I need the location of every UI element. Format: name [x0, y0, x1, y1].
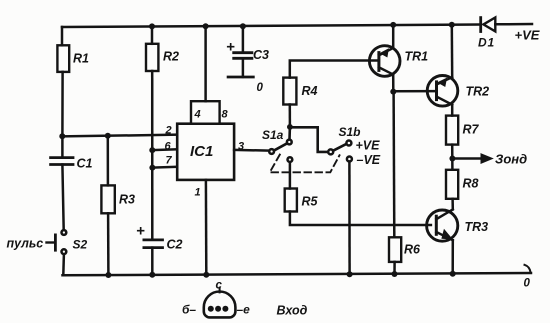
svg-text:1: 1: [195, 187, 201, 199]
svg-text:Зонд: Зонд: [495, 152, 527, 167]
svg-text:+VE: +VE: [356, 139, 381, 153]
svg-text:пульс: пульс: [7, 237, 44, 251]
node junction left: [59, 133, 65, 139]
wire IC pin 1 to bottom rail: [205, 180, 208, 275]
wire IC pin 3: [234, 149, 268, 152]
junction TR3 bottom: [450, 271, 456, 277]
wire C1 to S2: [62, 165, 63, 231]
capacitor C1: [51, 136, 93, 170]
wire top rail right of diode: [495, 23, 532, 26]
wire C2 to bottom rail: [151, 248, 154, 275]
junction pin1 bottom: [203, 272, 209, 278]
svg-text:R2: R2: [163, 50, 179, 64]
svg-text:C1: C1: [77, 157, 93, 171]
svg-text:S2: S2: [73, 238, 88, 252]
dashed gang link S1a-S1b: [270, 155, 340, 173]
svg-text:TR3: TR3: [465, 220, 489, 234]
wire TR2 collector to R7: [451, 105, 454, 116]
svg-text:R8: R8: [463, 177, 479, 191]
wire -VE contact to bottom rail: [348, 162, 351, 275]
resistor R4: [283, 61, 379, 105]
resistor R6: [389, 92, 421, 262]
wire R8 to TR3 collector: [451, 199, 454, 210]
svg-text:R1: R1: [73, 52, 89, 66]
svg-text:2: 2: [165, 125, 172, 137]
svg-text:IC1: IC1: [190, 143, 213, 160]
transistor TR1: [369, 46, 428, 77]
svg-text:+VE: +VE: [515, 28, 540, 43]
svg-text:8: 8: [222, 109, 229, 121]
junction pin7: [149, 165, 155, 171]
node TR1 collector junction: [390, 89, 396, 95]
wire R5 to TR3 base: [290, 212, 431, 226]
push-button S2: [47, 230, 88, 254]
svg-text:S1b: S1b: [339, 125, 361, 139]
svg-text:R4: R4: [302, 84, 318, 98]
junction R6 bottom: [392, 271, 398, 277]
wire R3 to bottom rail: [107, 213, 110, 275]
svg-text:R6: R6: [404, 243, 421, 257]
svg-text:S1a: S1a: [262, 128, 284, 142]
svg-text:б–: б–: [182, 303, 196, 317]
svg-text:D1: D1: [478, 36, 495, 50]
wire R2 bottom to C2: [151, 71, 154, 240]
svg-text:6: 6: [165, 141, 172, 153]
svg-text:C3: C3: [253, 48, 269, 62]
wire rail to IC pins 4/8: [204, 26, 207, 101]
switch S1a: [262, 127, 292, 162]
transistor socket pinout: [182, 280, 250, 318]
svg-text:C2: C2: [167, 238, 183, 252]
wire R1 bottom to node: [61, 72, 64, 136]
junction -VE bottom: [347, 271, 353, 277]
wire probe arrow: [452, 154, 492, 163]
capacitor C2: [136, 223, 183, 252]
resistor R8: [446, 170, 479, 199]
svg-text:–VE: –VE: [357, 153, 381, 167]
wire TR2 emitter to rail: [451, 25, 454, 77]
svg-text:0: 0: [257, 82, 264, 94]
junction R3 bottom: [105, 272, 111, 278]
wire TR1 collector down: [392, 75, 395, 92]
wire R6 to bottom rail: [393, 262, 396, 274]
svg-text:R7: R7: [463, 123, 480, 137]
diode D1: [478, 18, 495, 50]
transistor TR3: [427, 209, 489, 241]
wire top +VE rail left section: [62, 25, 481, 28]
svg-text:+: +: [136, 223, 145, 240]
node junction R3 top: [105, 133, 111, 139]
junction IC top: [203, 23, 209, 29]
junction TR1 rail: [390, 22, 396, 28]
wire pin 6 stub: [152, 148, 177, 151]
wire R4 to switch pole: [289, 105, 292, 127]
op-amp / timer IC1: [165, 101, 245, 198]
junction TR2 rail: [449, 22, 455, 28]
junction pin6: [149, 147, 155, 153]
resistor R1: [57, 27, 89, 72]
svg-text:Вход: Вход: [277, 304, 308, 318]
resistor R5: [285, 162, 319, 212]
wire bottom 0 rail: [63, 273, 532, 275]
capacitor C3: [226, 23, 269, 94]
svg-text:c: c: [216, 280, 223, 292]
resistor R3: [101, 136, 135, 213]
node probe junction: [449, 156, 455, 162]
node switch pole junction: [287, 124, 293, 130]
svg-text:R5: R5: [302, 195, 319, 209]
wire TR1 collector to TR2 base: [393, 90, 436, 93]
resistor R2: [146, 23, 179, 71]
svg-text:TR1: TR1: [405, 50, 429, 64]
wire S2 to bottom rail: [62, 254, 65, 275]
svg-text:7: 7: [166, 155, 173, 167]
svg-text:TR2: TR2: [466, 85, 490, 99]
wire pin 7 stub: [152, 166, 177, 169]
bottom rail end tick: [525, 265, 531, 273]
wire R7 to R8: [451, 145, 454, 170]
svg-text:0: 0: [524, 278, 531, 290]
junction C2 bottom: [149, 272, 155, 278]
svg-text:–е: –е: [237, 303, 251, 317]
wire TR3 emitter to bottom rail: [451, 240, 454, 273]
svg-text:R3: R3: [119, 193, 135, 207]
transistor TR2: [427, 76, 489, 107]
svg-text:4: 4: [194, 109, 201, 121]
wire TR1 emitter to rail: [392, 25, 395, 48]
switch S1b: [328, 125, 381, 167]
resistor R7: [446, 116, 480, 145]
wire node line to IC pin 2: [62, 135, 177, 137]
wire S1a pole to S1b: [290, 127, 328, 152]
